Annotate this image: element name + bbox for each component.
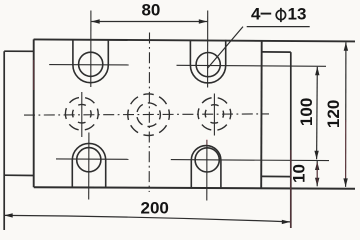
port center inner dashed circle — [137, 103, 161, 127]
left stub top edge — [4, 50, 34, 52]
port right inner dashed circle — [205, 105, 223, 123]
right stub right edge + 200 extension — [290, 52, 292, 228]
arrow 80 left — [91, 19, 100, 23]
dim 10 line — [316, 161, 318, 186]
hole BL circle — [77, 148, 101, 172]
port left centerline vertical — [81, 92, 83, 137]
svg-text:100: 100 — [297, 98, 316, 126]
arrow 100 bottom — [314, 151, 318, 160]
arrow 100 top — [315, 67, 319, 76]
dim 200 line — [4, 215, 290, 222]
svg-text:4: 4 — [251, 5, 261, 24]
svg-text:80: 80 — [141, 1, 160, 20]
hole TR centerline horizontal + 100 extension — [177, 65, 327, 66]
right stub bottom edge — [262, 175, 291, 177]
horizontal dash-dot centerline — [24, 114, 269, 115]
port left outer dashed circle — [65, 97, 98, 130]
hole BL boss arch — [72, 143, 105, 187]
red scan tint accents — [34, 60, 346, 228]
arrow 80 right — [199, 19, 208, 23]
vertical dash-dot centerline — [148, 33, 150, 193]
port right outer dashed circle — [198, 98, 231, 131]
label dash — [261, 13, 272, 15]
svg-text:200: 200 — [141, 199, 169, 218]
hole BR centerline vertical — [206, 140, 208, 201]
hole BL centerline vertical — [88, 133, 90, 200]
hole BR circle — [195, 148, 219, 172]
arrow 10 bottom — [315, 178, 319, 187]
dim 80 line — [91, 21, 207, 23]
left stub bottom edge — [4, 174, 34, 176]
arrow 120 top — [344, 42, 348, 51]
hole BR centerline horizontal + 10/100 extension — [171, 160, 329, 161]
hole BL centerline horizontal — [56, 158, 129, 160]
port right centerline vertical — [213, 94, 215, 136]
hole TL boss arch — [73, 40, 108, 83]
svg-text:120: 120 — [324, 100, 343, 128]
hole TR centerline vertical + 80 extension — [207, 11, 209, 88]
port left inner dashed circle — [73, 104, 92, 123]
plate right edge — [260, 41, 263, 188]
dim 100 line — [316, 67, 319, 159]
label phi symbol — [276, 8, 285, 22]
plate bottom edge (with 120 extension) — [34, 187, 355, 189]
hole TR boss arch — [190, 40, 225, 83]
right stub top edge — [262, 51, 291, 53]
arrow 200 left — [4, 213, 13, 217]
plate top edge (with 120 extension) — [34, 39, 355, 41]
hole BR boss arch — [191, 146, 221, 188]
hole TL circle — [79, 52, 103, 76]
arrow 120 bottom — [343, 178, 347, 187]
hole TL centerline vertical + 80 extension — [90, 11, 92, 88]
svg-text:13: 13 — [288, 5, 307, 24]
arrow 200 right — [282, 220, 291, 224]
arrow 10 top — [315, 162, 319, 171]
port center outer dashed circle — [128, 94, 170, 136]
hole TL centerline horizontal — [49, 64, 129, 66]
left stub left edge + 200 extension — [3, 51, 5, 230]
hole TR circle — [196, 53, 220, 77]
plate left edge — [33, 39, 35, 187]
svg-text:10: 10 — [290, 164, 309, 183]
dim 120 line — [345, 42, 347, 187]
leader line to hole TR — [207, 27, 243, 69]
leader underline — [247, 26, 310, 28]
